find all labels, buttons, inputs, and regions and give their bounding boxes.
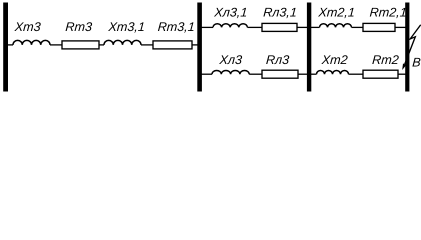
svg-text:Rт3: Rт3: [65, 20, 93, 34]
wire bus3 to Xт2.1: [311, 26, 320, 28]
resistor Rт3.1: [153, 41, 192, 49]
wire Xл3 to Rл3: [249, 73, 262, 75]
resistor Rт2: [363, 70, 398, 78]
inductor Xл3.1: [213, 24, 247, 28]
svg-text:Xл3: Xл3: [218, 53, 242, 67]
inductor Xт2.1: [320, 24, 352, 28]
svg-text:В: В: [412, 55, 421, 69]
resistor Rл3: [262, 70, 298, 78]
svg-text:Rт3,1: Rт3,1: [157, 20, 195, 34]
wire Rл3.1 to bus3: [297, 26, 307, 28]
bus bar third (node 3): [307, 3, 311, 92]
bus bar left (node 1): [3, 3, 8, 92]
wire bus2 to Xл3.1: [202, 26, 214, 28]
bus bar right (node B): [405, 3, 409, 92]
svg-text:Rт2: Rт2: [372, 53, 400, 67]
wire Rт2.1 to bus4: [395, 26, 406, 28]
short-circuit lightning bolt at node B: [405, 25, 421, 64]
wire Xт2 to Rт2: [349, 73, 364, 75]
wire Rт2 to bus4: [398, 73, 406, 75]
inductor Xт2: [317, 70, 349, 74]
inductor Xл3: [212, 71, 249, 75]
inductor Xт3.1: [104, 40, 141, 45]
svg-text:Rт2,1: Rт2,1: [369, 5, 407, 19]
inductor Xт3: [13, 40, 50, 45]
wire Xт3 to Rт3: [50, 44, 62, 46]
wire Rт3 to Xт3.1: [99, 44, 104, 46]
resistor Rт3: [62, 41, 99, 49]
wire bus2 to Xл3: [202, 73, 213, 75]
svg-text:Rл3,1: Rл3,1: [263, 5, 298, 19]
svg-text:Xт2: Xт2: [320, 53, 348, 67]
svg-text:Xт3,1: Xт3,1: [107, 20, 145, 34]
wire Rт3.1 to bus2: [192, 44, 198, 46]
svg-text:Rл3: Rл3: [265, 53, 289, 67]
arrowhead of lightning bolt: [402, 64, 406, 71]
svg-text:Xл3,1: Xл3,1: [213, 5, 248, 19]
svg-text:Xт2,1: Xт2,1: [317, 5, 355, 19]
bus bar middle (node 2): [197, 3, 202, 92]
wire Xл3.1 to Rл3.1: [247, 26, 262, 28]
svg-text:Xт3: Xт3: [13, 20, 41, 34]
wire Xт2.1 to Rт2.1: [352, 26, 364, 28]
wire Rл3 to bus3: [298, 73, 307, 75]
wire Xт3.1 to Rт3.1: [141, 44, 153, 46]
wire bus1 to Xт3: [8, 44, 13, 46]
resistor Rт2.1: [363, 23, 395, 31]
wire bus3 to Xт2: [311, 73, 317, 75]
resistor Rл3.1: [262, 23, 297, 31]
